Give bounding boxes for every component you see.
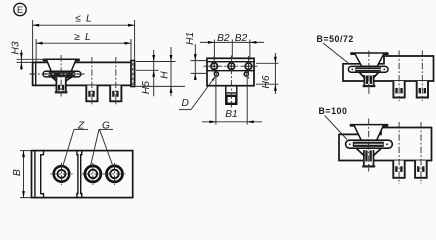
svg-text:B: B xyxy=(12,169,23,176)
front hidden line in end piece xyxy=(132,63,134,85)
front clamp cone top edge xyxy=(53,76,72,78)
variant B=100 stud A thread marks xyxy=(395,166,397,172)
variant B=50/72 clamp stud xyxy=(364,73,373,86)
dimension H1 extension lines xyxy=(191,61,208,74)
variant B=100 clamp bar xyxy=(346,140,393,148)
variant B=50/72 bar left pin dot xyxy=(351,69,353,71)
dimension B extension lines xyxy=(20,151,31,198)
top view hole 2 inner ring xyxy=(89,170,98,179)
middle view pin right dot xyxy=(246,73,248,75)
variant B=50/72 bar right pin dot xyxy=(383,69,385,71)
svg-text:E: E xyxy=(17,5,23,16)
label Z leader xyxy=(63,129,75,167)
variant B=50/72 clamp cone right slant xyxy=(374,73,378,78)
dimension B1 line xyxy=(202,121,262,123)
right side extension line bottom xyxy=(136,85,186,87)
variant B=100 clamp centerline xyxy=(368,119,370,172)
svg-text:≥ L: ≥ L xyxy=(74,32,92,43)
top view hole 1 inner ring xyxy=(58,170,66,178)
top view hole 3 crosshair xyxy=(104,163,126,185)
middle view screw 3 centerline xyxy=(248,56,250,79)
variant B=100 stud B thread marks xyxy=(417,166,419,172)
variant B=50/72 clamp trapezoid xyxy=(351,53,388,66)
variant B=100 stud B centerline xyxy=(420,122,422,184)
label G leader to hole 3 xyxy=(100,129,113,165)
variant B=100 stud A centerline xyxy=(398,122,400,184)
view label E circle xyxy=(14,3,26,15)
dimension greater-equal L arrows xyxy=(36,42,43,45)
top view hole 3 inner ring xyxy=(110,170,119,179)
front clamp cone left slant xyxy=(52,77,56,81)
svg-text:B2: B2 xyxy=(217,33,230,44)
variant B=100 clamp trapezoid xyxy=(351,125,388,141)
dimension lesser-equal L extension lines xyxy=(33,20,135,62)
svg-text:H6: H6 xyxy=(261,75,272,88)
front clamp stud xyxy=(56,77,65,92)
top view jaw boundary right profile xyxy=(81,151,82,198)
variant B=50/72 clamp bar slit xyxy=(356,68,381,70)
dimension H line xyxy=(170,47,172,96)
front clamp stud bottom xyxy=(56,91,66,93)
dimension lesser-equal L arrows xyxy=(33,24,40,27)
label D underline xyxy=(179,109,191,111)
variant B=100 clamp stud bottom xyxy=(363,165,374,167)
dimension H1 arrows xyxy=(194,54,197,61)
middle view pin left dot xyxy=(216,73,218,75)
right side extension line middle xyxy=(136,69,159,71)
variant B=50/72 stud A xyxy=(393,81,404,98)
middle view screw 3 xyxy=(245,63,252,70)
dimension H3 arrows xyxy=(20,53,23,60)
svg-text:H: H xyxy=(159,71,170,79)
variant B=100 stud A xyxy=(393,161,404,179)
variant B=100 stud B xyxy=(415,161,427,179)
middle view screw 1 ticks xyxy=(209,61,219,71)
middle view pin circle left xyxy=(214,72,218,76)
variant B=50/72 stud B thread marks xyxy=(419,88,421,93)
middle view screw 1 centerline xyxy=(213,56,215,79)
middle view central centerline xyxy=(230,56,232,108)
middle view upper inner line xyxy=(207,61,254,63)
variant B=50/72 clamp cone left slant xyxy=(360,73,365,78)
dimension H5 line xyxy=(153,50,155,96)
variant B=100 label leader xyxy=(325,115,347,139)
variant B=50/72 stud A centerline xyxy=(398,51,400,102)
dimension H3 extension lines xyxy=(17,59,47,62)
middle view stud xyxy=(226,86,237,105)
variant B=50/72 label leader xyxy=(323,43,350,65)
top view hole 2 outer ring xyxy=(85,166,101,182)
front stud 2 thread marks xyxy=(88,91,90,97)
variant B=100 clamp cone left slant xyxy=(357,149,364,156)
front stud 2 centerline xyxy=(91,57,93,105)
dimension greater-equal L extension lines xyxy=(36,39,131,62)
top view body outline xyxy=(32,151,133,198)
front clamp bar right pin dot xyxy=(77,73,79,75)
front clamp vertical centerline xyxy=(60,55,62,97)
variant B=50/72 clamp stud bottom xyxy=(364,85,375,87)
top view jaw plate stepped profile xyxy=(41,151,44,198)
dimension H arrows xyxy=(170,55,173,62)
dimension B2 line xyxy=(200,41,264,43)
front clamp bar left pin dot xyxy=(45,73,47,75)
svg-text:H3: H3 xyxy=(11,41,22,54)
top view left inner plate line xyxy=(34,151,36,198)
front stud 3 xyxy=(110,86,121,103)
front clamp stud thread marks xyxy=(58,85,60,91)
dimension lesser-equal L line xyxy=(33,24,135,26)
variant B=50/72 clamp stud thread marks xyxy=(366,76,368,84)
dimension H5 arrows xyxy=(152,55,155,62)
middle view screw 2 xyxy=(228,63,235,70)
top view jaw boundary left profile xyxy=(77,151,78,198)
label G underline xyxy=(99,128,113,130)
label D leader arrow xyxy=(212,76,217,81)
middle view screw 2 ticks xyxy=(227,61,237,71)
front clamp trapezoid xyxy=(44,59,80,71)
front clamp cone right slant xyxy=(66,77,72,81)
top view hole 3 outer ring xyxy=(107,166,123,182)
top view hole 2 crosshair xyxy=(82,163,104,185)
variant B=50/72 clamp bar xyxy=(348,66,388,72)
dimension greater-equal L line xyxy=(36,42,131,44)
svg-text:H1: H1 xyxy=(185,32,196,45)
variant B=100 bar right pin dot xyxy=(386,143,388,145)
variant B=100 clamp bar dark middle xyxy=(353,142,384,147)
front movable end piece xyxy=(131,61,135,87)
variant B=50/72 clamp centerline xyxy=(368,51,370,95)
front stud 2 xyxy=(86,86,97,103)
dimension H1 line xyxy=(194,44,196,80)
variant B=100 clamp stud xyxy=(364,148,374,166)
svg-text:D: D xyxy=(182,98,190,109)
variant B=100 block outline xyxy=(339,128,432,161)
dimension B2 arrows xyxy=(208,41,215,44)
label D leader xyxy=(191,78,214,110)
label G leader to hole 2 xyxy=(91,129,100,166)
top view hole 1 outer ring xyxy=(54,166,70,182)
svg-text:H5: H5 xyxy=(141,81,152,94)
variant B=100 bar left pin dot xyxy=(349,143,351,145)
middle view stud thread square xyxy=(226,96,236,104)
middle view pin circle right xyxy=(244,72,248,76)
dimension H6 extension lines xyxy=(256,63,279,84)
top view hole 1 crosshair xyxy=(51,163,73,185)
label Z underline xyxy=(74,128,88,130)
dimension B1 arrows xyxy=(209,120,216,123)
dimension B1 extension lines xyxy=(216,76,247,125)
front stud 3 centerline xyxy=(115,57,117,105)
svg-text:B=100: B=100 xyxy=(319,106,348,116)
front block left end inner plate line xyxy=(35,64,37,86)
svg-text:B1: B1 xyxy=(225,109,237,120)
svg-text:B2: B2 xyxy=(235,33,248,44)
middle view screw 1 xyxy=(211,63,218,70)
middle view screw 3 ticks xyxy=(244,61,254,71)
front bar horizontal centerline xyxy=(30,73,85,75)
variant B=50/72 block outline xyxy=(343,56,434,81)
dimension H6 line xyxy=(274,53,276,94)
variant B=100 clamp bar slit xyxy=(354,143,383,145)
right side extension line top xyxy=(136,61,176,63)
front clamp bar xyxy=(43,71,81,77)
front clamp bar slit xyxy=(49,73,75,75)
dimension B2 extension lines xyxy=(214,40,250,61)
front clamp bar dark middle xyxy=(49,72,76,76)
dimension H3 line xyxy=(20,50,22,70)
variant B=100 clamp stud thread marks xyxy=(365,150,367,161)
front stud 3 thread marks xyxy=(112,91,114,97)
middle view block outline xyxy=(207,58,254,85)
svg-text:B=50/72: B=50/72 xyxy=(317,34,354,44)
variant B=50/72 stud B xyxy=(417,81,428,98)
middle view horizontal centerline xyxy=(204,65,258,67)
dimension B line xyxy=(23,151,25,198)
variant B=50/72 stud A thread marks xyxy=(395,88,397,93)
variant B=50/72 clamp bar dark middle xyxy=(355,67,381,71)
variant B=50/72 stud B centerline xyxy=(421,51,423,102)
variant B=100 clamp cone right slant xyxy=(374,149,381,156)
dimension H6 arrows xyxy=(274,57,277,64)
front block body outline xyxy=(33,62,131,85)
svg-text:≤ L: ≤ L xyxy=(75,14,93,25)
dimension B arrows xyxy=(22,151,25,158)
middle view lower inner line xyxy=(207,70,254,72)
middle view stud shoulder line xyxy=(226,92,237,94)
